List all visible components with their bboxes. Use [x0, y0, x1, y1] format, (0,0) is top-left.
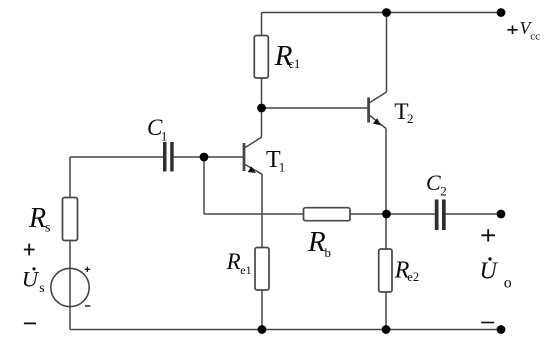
- node Re2 ground: [382, 325, 391, 334]
- resistor Rb: [304, 208, 351, 221]
- svg-text:s: s: [39, 280, 44, 295]
- svg-text:e1: e1: [240, 263, 251, 277]
- source Us circle: [51, 268, 89, 306]
- wire Rs through source Us to ground rail: [69, 240, 71, 330]
- wire Re2 top lead: [385, 214, 387, 249]
- wire T1 collector node to T2 base: [262, 107, 369, 109]
- node T2 emitter output: [382, 210, 391, 219]
- svg-text:R: R: [28, 203, 46, 234]
- label output minus: [481, 322, 494, 324]
- svg-text:U: U: [480, 259, 499, 285]
- svg-text:1: 1: [161, 130, 167, 144]
- label output +: [481, 229, 495, 241]
- svg-text:U: U: [22, 267, 40, 292]
- node junction top rail T2 collector: [382, 8, 391, 17]
- transistor T1: [244, 137, 262, 174]
- wire input vertical to Rs: [69, 157, 71, 198]
- wire base node down (feedback): [203, 157, 205, 214]
- terminal output bottom: [497, 325, 506, 334]
- label +Vcc: [507, 26, 517, 35]
- wire T1 emitter down to Re1: [261, 174, 263, 248]
- wire T2 emitter down to output node: [385, 129, 387, 215]
- svg-text:1: 1: [279, 160, 286, 175]
- resistor Re2: [379, 249, 392, 292]
- resistor Rc1: [254, 36, 268, 79]
- svg-text:c1: c1: [289, 57, 301, 71]
- capacitor C1: [163, 142, 174, 172]
- node Re1 ground: [258, 325, 267, 334]
- wire top supply rail: [262, 12, 502, 14]
- wire T2 collector to top rail: [386, 13, 388, 93]
- svg-text:o: o: [504, 274, 512, 291]
- node T1 collector: [257, 104, 266, 113]
- wire T1 collector vertical: [261, 108, 263, 138]
- label source polarity -: [85, 305, 90, 307]
- wire Rc1 bottom lead to collector node: [261, 77, 263, 108]
- wire input source to C1: [70, 156, 164, 158]
- resistor Re1: [255, 248, 269, 291]
- resistor Rs: [63, 198, 78, 241]
- wire Re2 bottom to ground rail: [385, 292, 387, 330]
- wire output node to C2: [387, 213, 436, 215]
- label input +: [24, 244, 35, 256]
- wire Rb to output node: [350, 213, 387, 215]
- svg-text:R: R: [226, 249, 241, 274]
- svg-text:2: 2: [440, 184, 447, 199]
- wire Re1 bottom to ground rail: [261, 290, 263, 330]
- capacitor C2: [435, 200, 446, 231]
- label source polarity +: [85, 267, 91, 272]
- node T1 base: [200, 153, 209, 162]
- svg-text:R: R: [307, 226, 326, 258]
- wire C2 to output terminal: [446, 213, 502, 215]
- svg-text:2: 2: [407, 111, 414, 126]
- terminal output top: [497, 210, 506, 219]
- wire Rc1 top lead: [261, 13, 263, 37]
- transistor T2: [369, 92, 387, 129]
- svg-text:s: s: [45, 221, 50, 236]
- terminal +Vcc: [497, 8, 506, 17]
- svg-text:b: b: [325, 245, 332, 260]
- label input minus: [24, 323, 36, 325]
- wire C1 to T1 base: [174, 156, 244, 158]
- svg-text:cc: cc: [530, 31, 540, 43]
- svg-text:C: C: [426, 170, 441, 195]
- wire feedback horizontal to Rb: [204, 213, 304, 215]
- wire bottom ground rail: [70, 329, 501, 331]
- svg-text:e2: e2: [407, 270, 419, 284]
